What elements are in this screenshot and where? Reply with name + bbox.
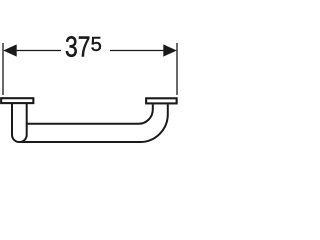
dimension line right segment: [110, 50, 165, 52]
bar top line and inner bend: [27, 105, 153, 124]
bar bottom line and outer bend: [19, 105, 167, 143]
left mounting cylinder: [12, 104, 27, 143]
left wall flange: [1, 98, 33, 103]
arrowhead right: [163, 44, 177, 56]
right wall flange: [146, 98, 177, 103]
grab bar tube outline: [12, 104, 168, 143]
dimension line left segment: [15, 50, 61, 52]
svg-text:37: 37: [65, 30, 90, 63]
svg-text:5: 5: [91, 34, 102, 56]
extension line right: [176, 43, 178, 95]
extension line left: [2, 43, 4, 95]
arrowhead left: [3, 44, 17, 56]
